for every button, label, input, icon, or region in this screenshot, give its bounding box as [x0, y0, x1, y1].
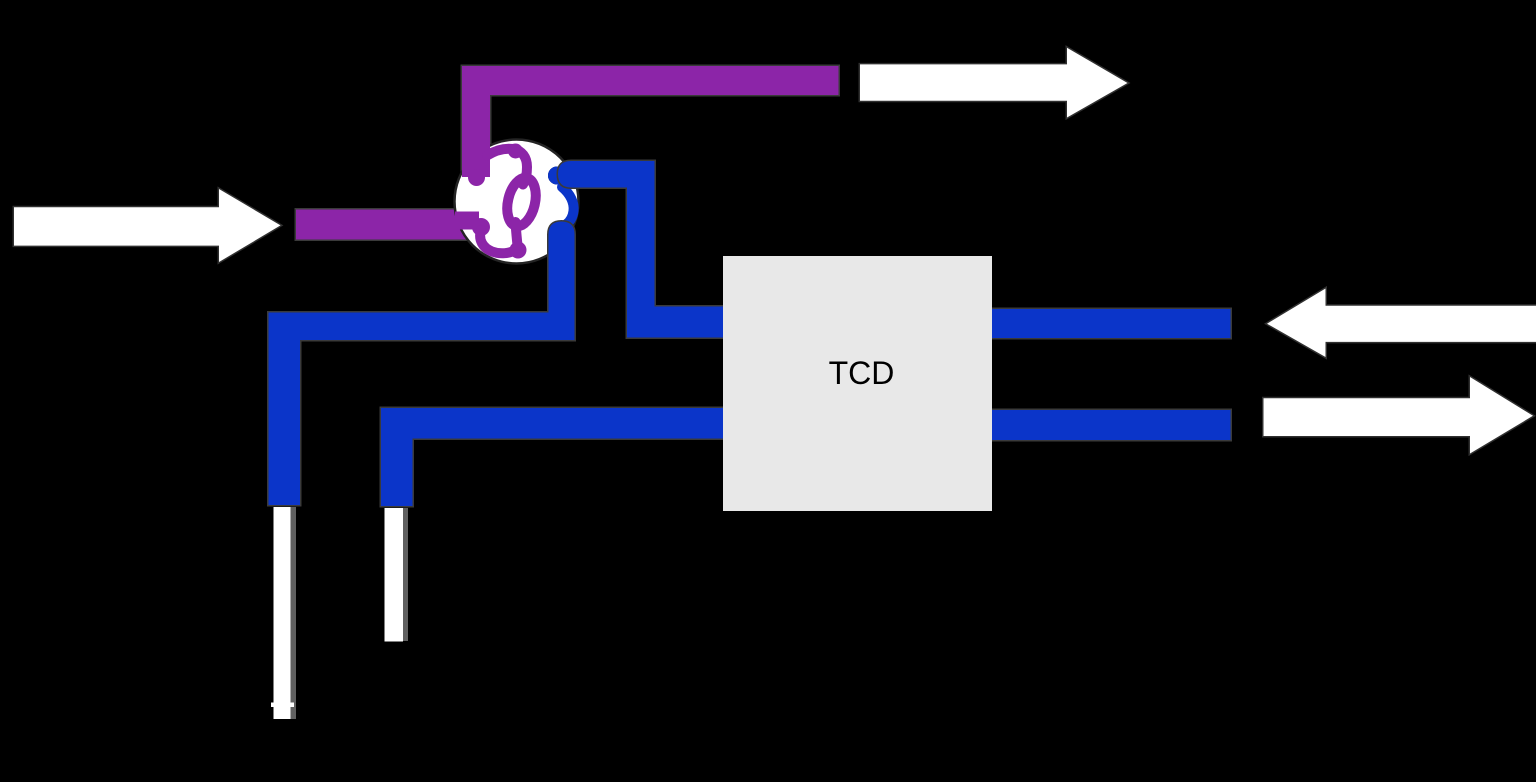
- wire: blue tube valve right, down, to TCD upper-left port: [558, 161, 723, 338]
- right middle white arrow (pointing left): [1267, 289, 1536, 358]
- wire: sample-in purple tube (left, into valve): [296, 210, 468, 240]
- left inlet white arrow: [14, 189, 281, 262]
- valve loop: lower purple arc from left port: [480, 230, 515, 253]
- wire: blue tube TCD upper-right (reference in): [992, 309, 1231, 338]
- wire: blue tube TCD lower-right (sample out): [992, 410, 1231, 440]
- valve port: purple carrier cap (top): [462, 140, 490, 186]
- column 2: white capillary below second blue tube: [385, 508, 409, 642]
- valve body: white circle: [455, 140, 579, 264]
- valve loop: upper purple squiggle: [487, 149, 527, 185]
- valve loop: ellipse-bottom link: [516, 222, 518, 246]
- bottom right white arrow (pointing right): [1264, 377, 1534, 454]
- column 1: white capillary below left blue tube: [271, 507, 296, 719]
- TCD box: [723, 256, 992, 511]
- wire: blue tube valve bottom, down-left, to column 1: [269, 222, 575, 506]
- valve loop: blue arc (right side): [562, 187, 574, 225]
- valve loop: sample loop ellipse: [503, 175, 540, 229]
- top outlet white arrow: [860, 48, 1128, 118]
- svg-text:TCD: TCD: [829, 355, 895, 391]
- valve loop: port dots: [508, 144, 527, 259]
- wire: blue tube TCD lower-left to column 2: [381, 408, 723, 506]
- valve port: purple inlet cap (left): [455, 212, 490, 237]
- wire: carrier purple tube (valve up and right to vent arrow): [462, 66, 839, 177]
- valve port: blue cap (right): [548, 167, 566, 185]
